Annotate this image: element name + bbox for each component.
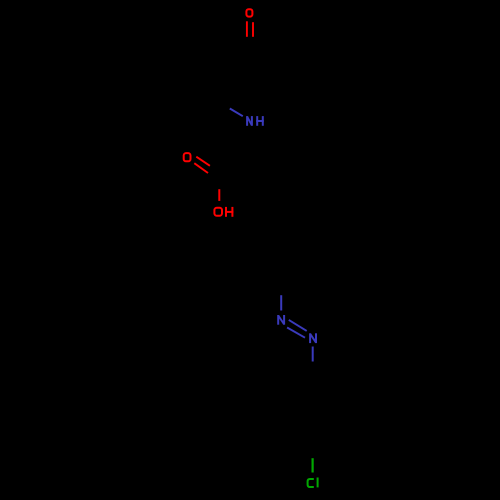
bond C-N (half near azo N1) xyxy=(280,295,282,310)
atom N-H (amine NH label) xyxy=(247,116,264,126)
bond C=O ketone double bond xyxy=(247,21,253,37)
atom N (azo nitrogen N2) xyxy=(310,333,316,343)
atom O-H (carboxyl OH label) xyxy=(214,207,233,217)
atom N (azo nitrogen N1) xyxy=(278,315,284,325)
atom Cl (chlorine label) xyxy=(308,478,318,488)
bond C=O carboxyl double bond xyxy=(194,157,210,173)
bond C-OH (half near hydroxyl oxygen) xyxy=(218,189,220,201)
atom O (ketone oxygen) xyxy=(246,9,252,16)
bond N-C (half near azo N2, to chlorophenyl ring) xyxy=(312,347,314,362)
bond C-N (half near NH nitrogen) xyxy=(230,109,243,117)
atom O (carboxyl carbonyl oxygen) xyxy=(184,153,191,161)
bond C-Cl (half near chlorine) xyxy=(312,458,314,472)
bond N=N azo double bond xyxy=(287,320,307,338)
